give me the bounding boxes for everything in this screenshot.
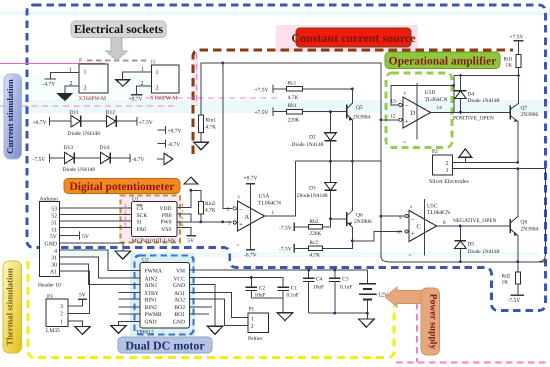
svg-text:−: − — [239, 205, 243, 213]
wire cap bottom rail — [309, 312, 368, 314]
svg-text:+: + — [411, 230, 415, 238]
wire LM35 pin1 to ground — [68, 321, 82, 326]
wire Rin2 bottom — [200, 214, 202, 222]
wire U5A pin2 riser — [223, 63, 233, 208]
diode D3 — [297, 183, 336, 199]
svg-text:XT60PW-M: XT60PW-M — [79, 96, 107, 102]
svg-text:−: − — [411, 215, 415, 223]
MCP pin numbers red — [124, 203, 184, 229]
junction pin2 riser top — [221, 62, 224, 65]
opamp U5D — [390, 90, 442, 145]
wire D2 cathode to node row — [330, 141, 332, 162]
svg-text:D: D — [411, 110, 416, 117]
svg-text:Diode 1N4148: Diode 1N4148 — [292, 142, 324, 148]
svg-text:0.1uF: 0.1uF — [340, 284, 352, 290]
svg-text:1K: 1K — [502, 280, 509, 286]
ground C1C2 — [277, 313, 293, 321]
svg-text:+7.5V: +7.5V — [255, 87, 269, 93]
svg-text:0.1uF: 0.1uF — [287, 293, 299, 299]
ground P — [58, 94, 73, 101]
junction riser pin12 — [380, 118, 383, 121]
svg-text:=: = — [409, 253, 412, 259]
svg-text:Electrical sockets: Electrical sockets — [74, 22, 163, 36]
svg-text:Thermal stimulation: Thermal stimulation — [4, 268, 14, 346]
svg-text:11: 11 — [51, 228, 57, 234]
wire riser to U5D pin12 — [381, 119, 402, 121]
capacitor C1 — [277, 286, 299, 299]
pink band left of maroon box — [193, 52, 198, 106]
svg-text:12: 12 — [390, 114, 396, 120]
svg-text:Peltier: Peltier — [248, 336, 263, 342]
svg-text:Digital potentiometer: Digital potentiometer — [69, 181, 174, 193]
wire U5C pin9 to node — [381, 215, 405, 217]
wire battery to ground — [366, 313, 368, 319]
wire MCP VSS down — [177, 228, 191, 236]
svg-text:1: 1 — [156, 70, 159, 76]
wire 52 to SCK — [60, 214, 132, 216]
ground battery — [359, 319, 375, 327]
svg-text:-8.7V: -8.7V — [168, 142, 181, 148]
svg-text:Dual DC motor: Dual DC motor — [125, 339, 205, 353]
artifact band 1 — [0, 11, 550, 15]
junction Q8 collector electrode — [516, 167, 519, 170]
svg-text:+7.5V: +7.5V — [255, 110, 269, 116]
wire node riser lower — [381, 160, 545, 262]
svg-text:4.7K: 4.7K — [309, 252, 320, 258]
svg-text:2N3904: 2N3904 — [353, 115, 371, 121]
TB6612 chip box — [140, 263, 190, 328]
wire 11 to PA0 — [60, 226, 132, 228]
svg-text:VM: VM — [176, 269, 185, 275]
wire LM35 pin2 up to A1 — [68, 271, 90, 313]
svg-text:D2: D2 — [309, 135, 316, 141]
wire -7.5V to Rc2 — [294, 247, 308, 249]
svg-text:4.7K: 4.7K — [288, 95, 299, 101]
svg-text:2: 2 — [227, 207, 230, 213]
peltier connector box — [248, 313, 269, 333]
wire header A1 — [60, 270, 90, 272]
power flag +7.5V row1 — [136, 117, 138, 126]
svg-text:C1: C1 — [291, 286, 298, 292]
power supply banner — [421, 288, 440, 355]
svg-text:+8.7V: +8.7V — [129, 97, 143, 103]
up-triangle flag electrodes — [459, 149, 472, 157]
svg-text:D13: D13 — [64, 145, 74, 151]
svg-text:5V: 5V — [79, 293, 86, 299]
wire header 31 to AIN2 — [60, 257, 140, 278]
diode D13 — [64, 145, 75, 164]
junction C3 top — [333, 269, 336, 272]
svg-text:Rb2: Rb2 — [309, 219, 318, 225]
svg-text:2: 2 — [446, 161, 449, 167]
pink fill of digital potentiometer box — [119, 194, 181, 243]
wire P pin1 — [50, 72, 79, 78]
pink dashed bottom right horizontal — [396, 362, 550, 364]
svg-text:51: 51 — [51, 221, 57, 227]
svg-text:VDD: VDD — [159, 206, 171, 212]
wire electrode pin2 — [452, 161, 518, 163]
svg-text:Diode 1N4148: Diode 1N4148 — [468, 98, 500, 104]
wire Rb1 to Q5 base — [302, 111, 346, 113]
wire Rc1 to Q5 collector node — [302, 88, 352, 90]
wire TB6612 VM row — [190, 269, 368, 271]
power flag -4.7V — [45, 78, 57, 80]
power up-triangle flag MCP — [184, 177, 198, 184]
svg-text:Q7: Q7 — [521, 106, 528, 112]
svg-text:+7.5V: +7.5V — [510, 35, 524, 41]
svg-text:POSITIVE_OPEN: POSITIVE_OPEN — [453, 115, 494, 121]
svg-text:GND: GND — [44, 241, 57, 247]
svg-text:8: 8 — [443, 220, 446, 226]
header pin labels — [44, 207, 57, 276]
artifact band 4 — [0, 75, 180, 97]
svg-text:Operational amplifier: Operational amplifier — [389, 56, 497, 68]
junction Q6 base node — [329, 218, 332, 221]
wire Rc2 to emitter node — [323, 241, 353, 248]
svg-text:1: 1 — [60, 319, 63, 325]
dual DC motor banner — [118, 337, 212, 353]
svg-text:5V: 5V — [187, 238, 194, 244]
wire PWMB stub — [118, 313, 140, 315]
svg-text:Diode1N4148: Diode1N4148 — [297, 193, 328, 199]
wire TB6612 GND right to ground — [190, 285, 216, 327]
svg-text:C4: C4 — [316, 277, 323, 283]
svg-text:Q8: Q8 — [521, 220, 528, 226]
connector P box — [79, 64, 108, 93]
wire Q6 base — [331, 218, 347, 220]
svg-text:1: 1 — [84, 70, 87, 76]
wire Q6 collector up — [351, 161, 353, 210]
power flag 5V header — [79, 231, 81, 239]
power flag +8.7V U5A — [246, 183, 255, 185]
svg-text:Power supply: Power supply — [428, 294, 439, 350]
resistor Rin1 — [199, 115, 204, 133]
svg-text:NEGATIVE_OPEN: NEGATIVE_OPEN — [453, 218, 497, 224]
transistor Q7 — [510, 76, 538, 127]
svg-text:XT60PW-M: XT60PW-M — [150, 96, 178, 102]
pink dashed line y98 — [145, 97, 280, 99]
svg-text:D4: D4 — [468, 91, 475, 97]
wire BIN2 stub — [118, 306, 140, 308]
svg-text:U5C: U5C — [427, 203, 438, 209]
svg-text:Q5: Q5 — [356, 105, 363, 111]
wire node row y161 — [296, 160, 381, 162]
junction D5 bottom — [459, 260, 462, 263]
TB6612 pin names — [145, 269, 186, 326]
svg-text:5V: 5V — [50, 234, 58, 240]
pink dashed vertical bottom right — [416, 303, 418, 362]
wire D3 cathode to Q6 base node — [330, 190, 332, 219]
svg-text:Current stimulation: Current stimulation — [5, 79, 15, 154]
wire +7.5V to Rc1 — [273, 88, 287, 90]
resistor Rc2 — [309, 246, 323, 251]
svg-text:2: 2 — [156, 86, 159, 92]
gray dashed line over sockets — [87, 60, 146, 62]
junction D2 top node — [329, 110, 332, 113]
ground LM35 — [75, 326, 91, 334]
svg-text:C2: C2 — [259, 286, 266, 292]
MCP pin names — [137, 206, 172, 233]
junction pin2 riser node — [221, 221, 224, 224]
svg-text:-8.7V: -8.7V — [244, 253, 257, 259]
wire Q6 emitter down — [351, 227, 353, 241]
svg-text:Rd2: Rd2 — [502, 274, 511, 280]
resistor Rc1 — [287, 87, 303, 92]
maroon dashed border constant current source — [193, 50, 513, 154]
svg-text:Constant current source: Constant current source — [291, 31, 416, 45]
U5C power rail vertical — [424, 199, 426, 255]
junction D4 top — [459, 74, 462, 77]
wire header 4 to PWMA — [60, 250, 140, 270]
pink solid line y63 — [0, 63, 105, 65]
wire top loop y63 — [201, 63, 381, 160]
cyan dashed border dual DC motor — [135, 256, 194, 335]
svg-text:1K: 1K — [506, 63, 513, 69]
wire TB6612 VCC row — [190, 278, 284, 288]
wire 5V stub — [60, 234, 80, 236]
svg-text:P2: P2 — [432, 149, 438, 155]
svg-text:+7.5V: +7.5V — [139, 120, 153, 126]
wire MCP VDD up flag — [177, 190, 191, 207]
wire BIN1 stub — [118, 298, 140, 300]
wire U5C output row — [437, 225, 510, 227]
wire Rb2 to base node — [323, 219, 331, 227]
wire D3 anode — [330, 161, 332, 182]
diode D12 — [106, 110, 117, 127]
svg-text:10: 10 — [397, 230, 403, 236]
power flag 5V MCP — [186, 235, 195, 237]
svg-text:SCK: SCK — [137, 213, 148, 219]
junction Q6 emitter node — [351, 240, 354, 243]
thermal stimulation banner — [3, 261, 22, 353]
svg-text:CS: CS — [137, 206, 144, 212]
diode D2 — [292, 133, 337, 148]
svg-text:TL064CN: TL064CN — [425, 97, 448, 103]
svg-text:P: P — [79, 58, 82, 64]
wire D2 anode — [330, 112, 332, 133]
svg-text:+8.7V: +8.7V — [168, 129, 182, 135]
svg-text:GND: GND — [145, 320, 157, 326]
svg-text:D14: D14 — [100, 145, 110, 151]
transistor Q6 — [347, 205, 372, 232]
junction C4 top — [307, 269, 310, 272]
svg-text:+8.7V: +8.7V — [33, 120, 47, 126]
ground header — [115, 251, 131, 259]
ground TB6612 right — [207, 326, 223, 334]
wire GND header — [60, 243, 123, 251]
wire 51 to SI — [60, 220, 132, 222]
artifact band 3 — [28, 252, 538, 257]
svg-text:Diode 1N4148: Diode 1N4148 — [468, 249, 500, 255]
ground TB6612 left — [111, 325, 127, 333]
junction feedback top — [452, 84, 455, 87]
wire Rin1 to ground — [200, 133, 202, 143]
svg-text:D3: D3 — [309, 185, 316, 191]
svg-text:PWMA: PWMA — [145, 269, 162, 275]
stem flag electrodes — [464, 157, 466, 162]
svg-text:4.7K: 4.7K — [206, 125, 217, 131]
svg-text:U5D: U5D — [425, 90, 436, 96]
svg-text:1: 1 — [251, 316, 254, 322]
wire emitter node to U5C pin10 — [352, 232, 402, 241]
svg-text:A1: A1 — [50, 269, 57, 275]
resistor Rd2 — [502, 262, 521, 295]
svg-text:LM35: LM35 — [46, 328, 60, 334]
ground J1 — [116, 80, 130, 87]
svg-text:VSS: VSS — [161, 227, 171, 233]
svg-text:2N3906: 2N3906 — [521, 112, 539, 118]
svg-text:-7.5V: -7.5V — [33, 157, 46, 163]
junction Q5 collector — [351, 88, 354, 91]
svg-text:TB6612: TB6612 — [136, 330, 154, 336]
junction rail C3 — [333, 312, 336, 315]
svg-text:P1: P1 — [249, 307, 255, 313]
svg-text:-7.5V: -7.5V — [279, 247, 292, 253]
svg-text:220K: 220K — [288, 118, 300, 124]
svg-text:BO2: BO2 — [174, 305, 185, 311]
svg-text:+: + — [239, 220, 243, 228]
svg-text:STBY: STBY — [145, 291, 159, 297]
transistor Q8 — [510, 169, 538, 262]
svg-text:=: = — [237, 243, 240, 249]
battery +12V — [359, 270, 389, 313]
junction D5 top — [459, 225, 462, 228]
U5D power rail vertical — [416, 83, 418, 140]
svg-text:PA0: PA0 — [137, 227, 147, 233]
svg-text:PB0: PB0 — [162, 213, 172, 219]
power flag -7.5V Rd2 — [511, 294, 525, 296]
svg-text:GND: GND — [173, 283, 185, 289]
power flag -8.7V U5A — [246, 249, 255, 251]
gray arrow — [106, 37, 128, 61]
svg-text:3: 3 — [228, 221, 231, 227]
wire MCP PB0 stub — [177, 214, 191, 222]
svg-text:10uF: 10uF — [313, 284, 324, 290]
svg-text:TL064CN: TL064CN — [427, 210, 450, 216]
svg-text:U5A: U5A — [259, 194, 270, 200]
resistor Rin2 — [198, 202, 203, 215]
svg-text:31: 31 — [51, 255, 57, 261]
svg-text:2N3906: 2N3906 — [354, 219, 372, 225]
svg-text:-4.7V: -4.7V — [43, 82, 56, 88]
wire P pin2 — [65, 86, 79, 94]
svg-text:-8.7V: -8.7V — [132, 157, 145, 163]
silver electrodes connector box — [432, 155, 452, 175]
diode D4 — [455, 76, 500, 113]
wire STBY stub — [118, 292, 140, 294]
wire U5D output row — [431, 111, 510, 113]
junction Rin2 node — [199, 221, 202, 224]
wire AO2 to peltier pin2 — [190, 299, 249, 325]
svg-text:D12: D12 — [106, 110, 116, 116]
wire diode row2 — [50, 157, 131, 159]
wire J1 pin2 — [137, 86, 152, 95]
MCP chip box — [131, 201, 177, 236]
svg-text:+8.7V: +8.7V — [244, 176, 258, 182]
svg-text:5V: 5V — [82, 234, 90, 240]
wire +7.5V to Rb1 — [273, 111, 287, 113]
capacitor C3 — [329, 270, 352, 313]
resistor Rb1 — [287, 109, 303, 114]
wire -7.5V to Rb2 — [294, 226, 308, 228]
svg-text:52: 52 — [51, 214, 57, 220]
cyan fill dual DC motor box — [130, 253, 195, 336]
power supply arrow — [385, 287, 421, 307]
opamp U5A — [227, 194, 275, 249]
svg-text:PW0: PW0 — [160, 220, 171, 226]
olive dashed border digital potentiometer — [121, 196, 181, 243]
svg-text:-7.5V: -7.5V — [508, 298, 521, 304]
diode D11 — [70, 110, 81, 127]
wire Q7 emitter down — [517, 121, 519, 162]
svg-text:Diode 1N4148: Diode 1N4148 — [63, 167, 96, 173]
junction row Q5 — [351, 160, 354, 163]
svg-text:=: = — [403, 139, 406, 145]
port arrow -8.7V — [157, 158, 164, 160]
pink dashed line y106 — [0, 105, 179, 107]
junction row D3 — [329, 160, 332, 163]
diode D14 — [100, 145, 111, 164]
svg-text:1: 1 — [272, 210, 275, 216]
power flag -8.7V row2 — [129, 154, 131, 163]
svg-text:BIN2: BIN2 — [145, 305, 158, 311]
LM35 connector box — [46, 299, 68, 326]
svg-text:Rb1: Rb1 — [288, 103, 297, 109]
capacitor C2 — [246, 278, 266, 299]
junction Q8 emitter rail — [516, 260, 519, 263]
wire diode row1 — [50, 120, 138, 122]
connector J1 box — [151, 65, 179, 93]
opamp U5C — [397, 204, 447, 259]
junction MCP vdd — [190, 189, 193, 192]
svg-text:Q6: Q6 — [356, 213, 363, 219]
wire to Rin2 top — [191, 190, 201, 201]
svg-text:Diode 1N4148: Diode 1N4148 — [68, 131, 101, 137]
U5A power rail vertical — [250, 184, 252, 250]
svg-text:1: 1 — [446, 168, 449, 174]
capacitor C4 — [303, 270, 324, 313]
svg-text:VCC: VCC — [173, 276, 185, 282]
svg-text:2: 2 — [251, 324, 254, 330]
svg-text:14: 14 — [437, 105, 443, 111]
wire top rail to Rd1 — [454, 75, 519, 77]
resistor Rd1 — [504, 41, 522, 76]
svg-text:Rin2: Rin2 — [205, 201, 216, 207]
svg-text:BO1: BO1 — [174, 312, 185, 318]
svg-text:BIN1: BIN1 — [145, 297, 158, 303]
wire TB6612 GND left — [119, 321, 140, 325]
svg-text:+: + — [405, 117, 409, 125]
svg-text:AIN1: AIN1 — [145, 283, 158, 289]
wire BO1 stub — [190, 313, 210, 315]
junction Rd1 bottom — [517, 74, 520, 77]
power stub -8.7V — [158, 143, 166, 145]
yellow dashed border thermal stimulation — [28, 261, 394, 358]
operational amplifier banner — [385, 52, 500, 69]
svg-text:220K: 220K — [309, 231, 321, 237]
svg-text:2: 2 — [84, 86, 87, 92]
svg-text:Rc1: Rc1 — [288, 81, 297, 87]
svg-text:4.7K: 4.7K — [205, 208, 216, 214]
diode D5 — [455, 226, 500, 262]
wire U5D feedback loop — [391, 86, 454, 105]
svg-text:PWMB: PWMB — [145, 312, 162, 318]
junction rail battery — [366, 312, 369, 315]
power flag 5V LM35 — [78, 298, 87, 300]
power flag +8.7V J1 — [131, 94, 143, 96]
pink halo behind constant current source label — [276, 25, 418, 52]
svg-text:-7.5V: -7.5V — [279, 225, 292, 231]
